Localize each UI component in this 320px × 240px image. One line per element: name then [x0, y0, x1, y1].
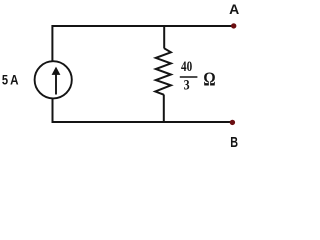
terminal B dot — [230, 120, 235, 125]
current source I1 5A: circle — [35, 61, 72, 98]
wire: resistor branch bottom stub — [163, 95, 165, 124]
svg-text:A: A — [10, 73, 19, 88]
svg-text:40: 40 — [181, 59, 192, 75]
svg-text:3: 3 — [184, 78, 190, 94]
wire: resistor branch top stub — [163, 25, 165, 49]
wire: left branch lower segment — [52, 98, 54, 123]
svg-text:Ω: Ω — [203, 69, 215, 91]
wire: left branch upper segment — [51, 25, 53, 62]
wire: top wire from left corner to terminal A — [52, 25, 233, 27]
current source arrow shaft — [55, 73, 57, 95]
resistor value: fraction bar — [180, 76, 198, 78]
resistor R1 zigzag — [155, 48, 171, 94]
svg-text:A: A — [229, 1, 239, 17]
terminal A dot — [231, 23, 236, 28]
wire: bottom wire from left corner to terminal B — [52, 121, 232, 123]
current source arrowhead — [52, 67, 61, 75]
svg-text:5: 5 — [2, 73, 9, 88]
svg-text:B: B — [230, 134, 238, 151]
